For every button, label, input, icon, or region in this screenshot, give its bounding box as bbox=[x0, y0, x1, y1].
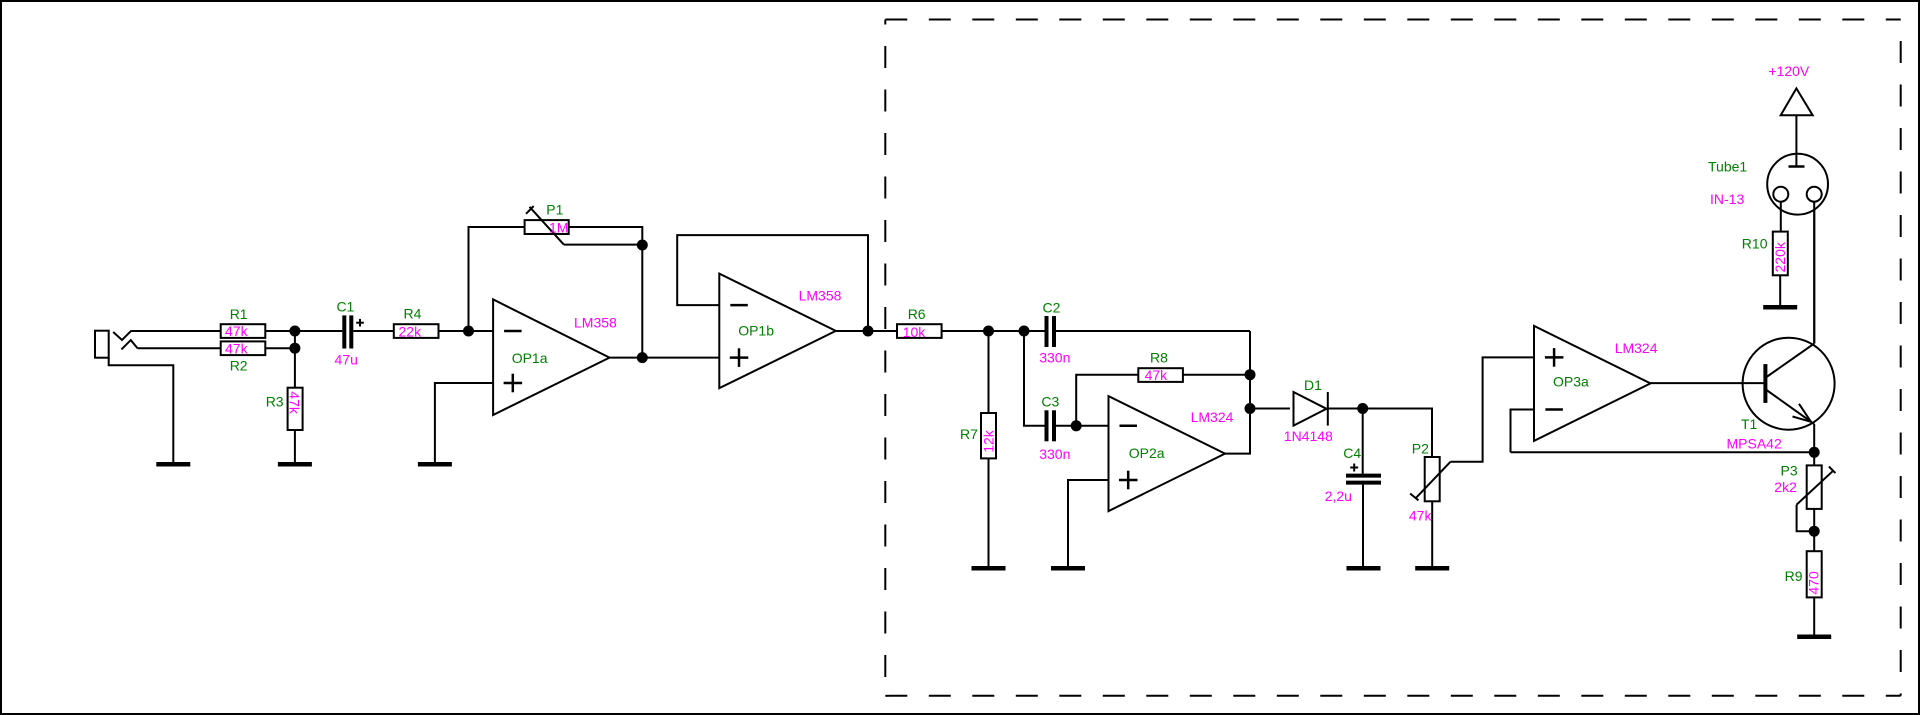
wire OP2a feedback bus bbox=[1225, 331, 1250, 454]
junction dot (C3 out) bbox=[1071, 420, 1082, 431]
svg-text:330n: 330n bbox=[1039, 350, 1070, 366]
wire T1 collector to tube bbox=[1813, 202, 1815, 344]
wire OP2a + input to ground bbox=[1068, 480, 1109, 566]
junction dot (emitter node) bbox=[1809, 447, 1820, 458]
svg-text:220k: 220k bbox=[1772, 241, 1788, 272]
potentiometer P3 bbox=[1774, 452, 1835, 551]
wire R1 to node bbox=[265, 330, 342, 332]
junction dot (C2/C3 node) bbox=[1019, 326, 1030, 337]
wire tube left pin to R10 bbox=[1780, 202, 1782, 232]
svg-text:+120V: +120V bbox=[1768, 63, 1810, 79]
wire tube right pin down bbox=[1813, 202, 1815, 344]
ground (R7) bbox=[972, 566, 1006, 571]
svg-text:OP1a: OP1a bbox=[512, 350, 548, 366]
svg-text:2k2: 2k2 bbox=[1774, 479, 1797, 495]
svg-text:R3: R3 bbox=[266, 394, 284, 410]
wire T1 emitter to node bbox=[1813, 424, 1815, 452]
junction dot (R7 node) bbox=[983, 326, 994, 337]
junction dot (R8 right) bbox=[1245, 369, 1256, 380]
wire OP1b output bbox=[836, 330, 897, 332]
capacitor C2 bbox=[1039, 300, 1070, 366]
ground (R9) bbox=[1797, 635, 1831, 640]
svg-text:R1: R1 bbox=[230, 306, 248, 322]
svg-text:OP2a: OP2a bbox=[1129, 445, 1165, 461]
dashed enclosure bbox=[885, 20, 1900, 696]
svg-text:2,2u: 2,2u bbox=[1325, 488, 1352, 504]
svg-text:330n: 330n bbox=[1039, 446, 1070, 462]
svg-text:P3: P3 bbox=[1781, 463, 1798, 479]
svg-text:R6: R6 bbox=[908, 306, 926, 322]
junction dot (OP1a out) bbox=[637, 352, 648, 363]
wire C3 to OP2a - input bbox=[1056, 425, 1109, 427]
wire feedback to emitter node bbox=[1511, 451, 1815, 453]
capacitor C3 bbox=[1024, 331, 1070, 462]
svg-text:R2: R2 bbox=[230, 358, 248, 374]
junction dot (P1 wiper) bbox=[637, 240, 648, 251]
resistor R3 bbox=[266, 348, 303, 462]
diode D1 bbox=[1284, 377, 1333, 444]
ground (R10) bbox=[1763, 305, 1797, 310]
wire C2 to bus bbox=[1056, 330, 1250, 332]
svg-text:47k: 47k bbox=[225, 340, 249, 356]
ground (OP1a) bbox=[418, 462, 452, 467]
resistor R7 bbox=[960, 331, 996, 566]
wire D1 to P2 bbox=[1329, 409, 1433, 458]
wire R6 to C2 bbox=[942, 330, 1046, 332]
ground (OP2a) bbox=[1051, 566, 1085, 571]
wire tip to R1 bbox=[132, 330, 221, 332]
wire OP1a output bbox=[610, 357, 720, 359]
svg-text:T1: T1 bbox=[1741, 416, 1758, 432]
svg-text:LM358: LM358 bbox=[574, 315, 617, 331]
svg-text:OP3a: OP3a bbox=[1553, 374, 1589, 390]
junction dot (D1 out) bbox=[1357, 403, 1368, 414]
svg-text:C4: C4 bbox=[1343, 445, 1361, 461]
ground (jack) bbox=[156, 462, 190, 467]
svg-text:47k: 47k bbox=[225, 323, 249, 339]
transistor T1 bbox=[1727, 338, 1835, 452]
svg-text:R7: R7 bbox=[960, 426, 978, 442]
svg-text:C3: C3 bbox=[1041, 394, 1059, 410]
resistor R8 bbox=[1076, 350, 1250, 426]
op-amp OP3a bbox=[1534, 326, 1658, 441]
op-amp OP1a bbox=[493, 299, 617, 415]
ground (R3) bbox=[278, 462, 312, 467]
ground (P2) bbox=[1415, 566, 1449, 571]
op-amp OP1b bbox=[719, 274, 841, 389]
svg-text:C2: C2 bbox=[1043, 300, 1061, 316]
svg-text:R10: R10 bbox=[1742, 236, 1768, 252]
svg-text:P1: P1 bbox=[546, 202, 563, 218]
resistor R9 bbox=[1785, 551, 1822, 634]
junction dot (D1 branch) bbox=[1245, 403, 1256, 414]
resistor R2 bbox=[221, 340, 266, 373]
wire R2 to node bbox=[265, 347, 295, 349]
junction dot bbox=[463, 326, 474, 337]
svg-text:LM324: LM324 bbox=[1191, 409, 1234, 425]
capacitor C4 bbox=[1325, 409, 1381, 567]
potentiometer P2 bbox=[1409, 441, 1451, 567]
svg-text:1N4148: 1N4148 bbox=[1284, 428, 1333, 444]
potentiometer P1 bbox=[469, 202, 643, 358]
power +120V bbox=[1768, 63, 1812, 167]
svg-text:OP1b: OP1b bbox=[738, 323, 774, 339]
wire OP3a output to T1 base bbox=[1651, 382, 1766, 384]
wire node to node bbox=[294, 331, 296, 348]
svg-text:LM324: LM324 bbox=[1615, 340, 1658, 356]
svg-text:470: 470 bbox=[1806, 571, 1822, 595]
capacitor C1 bbox=[335, 299, 364, 368]
junction dot (OP1b out) bbox=[863, 326, 874, 337]
svg-text:R8: R8 bbox=[1150, 350, 1168, 366]
wire OP1a + input to ground bbox=[435, 383, 493, 462]
wire C1 to R4 bbox=[353, 330, 394, 332]
svg-text:47k: 47k bbox=[1145, 367, 1169, 383]
wire ring to R2 bbox=[138, 347, 221, 349]
svg-text:47k: 47k bbox=[286, 391, 302, 415]
wire bus to D1 bbox=[1250, 408, 1290, 410]
resistor R4 bbox=[394, 305, 439, 339]
op-amp OP2a bbox=[1109, 396, 1234, 511]
svg-text:LM358: LM358 bbox=[799, 288, 842, 304]
svg-text:1M: 1M bbox=[549, 220, 568, 236]
wire OP1b feedback bbox=[677, 235, 868, 331]
connector jack bbox=[95, 331, 173, 463]
junction dot bbox=[289, 343, 300, 354]
wire OP3a - input bbox=[1511, 410, 1535, 453]
svg-text:47k: 47k bbox=[1409, 508, 1433, 524]
resistor R10 bbox=[1742, 232, 1788, 305]
wire P2 wiper to OP3a + input bbox=[1450, 357, 1534, 461]
svg-text:22k: 22k bbox=[399, 323, 423, 339]
junction dot bbox=[289, 326, 300, 337]
svg-text:12k: 12k bbox=[980, 429, 996, 453]
ground (C4) bbox=[1347, 566, 1381, 571]
svg-text:MPSA42: MPSA42 bbox=[1727, 436, 1782, 452]
svg-text:Tube1: Tube1 bbox=[1708, 159, 1747, 175]
tube Tube1 IN-13 bbox=[1708, 154, 1828, 215]
resistor R1 bbox=[221, 306, 266, 339]
svg-text:IN-13: IN-13 bbox=[1710, 191, 1744, 207]
svg-text:C1: C1 bbox=[336, 299, 354, 315]
svg-text:R4: R4 bbox=[404, 305, 422, 321]
svg-text:10k: 10k bbox=[903, 324, 927, 340]
resistor R6 bbox=[897, 306, 942, 340]
junction dot (P3 wiper node) bbox=[1809, 526, 1820, 537]
svg-text:47u: 47u bbox=[335, 352, 358, 368]
svg-text:P2: P2 bbox=[1412, 441, 1429, 457]
svg-text:R9: R9 bbox=[1785, 568, 1803, 584]
svg-text:D1: D1 bbox=[1304, 377, 1322, 393]
wire R4 to OP1a bbox=[439, 330, 494, 332]
